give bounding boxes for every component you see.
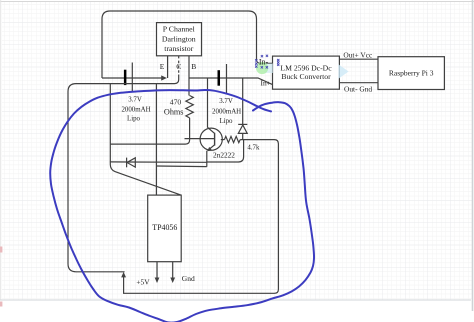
wire loop1: In- net from battery+ rail up and over to buck converter In- xyxy=(102,11,273,78)
svg-text:Lipo: Lipo xyxy=(127,116,141,123)
battery B1 thick plate xyxy=(124,70,127,85)
transistor Q1 emitter arrow xyxy=(207,147,212,151)
page left border xyxy=(0,0,2,300)
svg-text:3.7V: 3.7V xyxy=(219,98,233,105)
raspberry pi U3 box xyxy=(378,57,444,90)
svg-text:2000mAH: 2000mAH xyxy=(212,109,241,116)
wire battery2 rail B to In+ xyxy=(189,78,273,85)
wire Out- Gnd xyxy=(339,82,378,84)
svg-text:3.7V: 3.7V xyxy=(128,97,142,104)
svg-text:+5V: +5V xyxy=(136,278,150,287)
wire freehand blue enclosure loop xyxy=(50,90,314,322)
wire loop2: C net down left side to +5V arrow xyxy=(68,84,175,272)
battery B1 long thin plate xyxy=(131,63,133,93)
wire battery1 rail to E with arrow xyxy=(102,77,161,79)
page right border xyxy=(472,0,474,311)
wire diode net horizontal xyxy=(110,161,207,163)
buck converter U2 box xyxy=(273,56,340,89)
svg-text:Ohms: Ohms xyxy=(164,108,184,117)
arrowhead down left xyxy=(155,278,160,284)
selection x handles around In- xyxy=(255,55,279,69)
arrowhead down Gnd xyxy=(170,278,175,284)
diode D2 bar xyxy=(238,123,247,125)
svg-text:Gnd: Gnd xyxy=(182,274,195,283)
pin C hook to loop2 xyxy=(175,75,179,84)
transistor Q1 base bar xyxy=(214,133,216,146)
component U1 P Channel Darlington transistor box xyxy=(157,23,202,56)
svg-text:470: 470 xyxy=(170,98,182,107)
wire R2 to bottom rail and +5V arrow xyxy=(124,140,279,294)
TP4056 U4 box xyxy=(148,195,182,262)
left margin pink smudge 2 xyxy=(0,302,2,307)
svg-text:4.7k: 4.7k xyxy=(247,144,260,151)
svg-text:E: E xyxy=(160,62,165,71)
svg-text:2000mAH: 2000mAH xyxy=(121,106,150,113)
svg-text:In+: In+ xyxy=(261,79,271,88)
resistor R2 zigzag xyxy=(224,136,240,142)
svg-text:Lipo: Lipo xyxy=(219,118,233,125)
svg-text:Darlington: Darlington xyxy=(162,35,196,44)
TP4056 left output lead xyxy=(156,262,158,280)
page top border xyxy=(0,1,474,3)
transistor Q1 emitter diagonal xyxy=(208,145,215,151)
svg-text:Out+ Vcc: Out+ Vcc xyxy=(343,51,373,60)
diode D2 triangle xyxy=(238,125,247,133)
arrowhead +5V up xyxy=(121,272,126,278)
battery B2 thick plate xyxy=(218,70,221,86)
pin C lead (dashed) xyxy=(178,56,180,75)
transistor Q1 collector lead up xyxy=(207,78,209,128)
page grid bottom edge xyxy=(0,299,471,301)
svg-text:TP4056: TP4056 xyxy=(152,223,177,232)
resistor R1 bottom lead cornering left xyxy=(110,118,189,144)
resistor R2 4.7k lead xyxy=(221,139,225,141)
battery B2 long thin plate xyxy=(226,64,228,93)
diode D2 lead to junction xyxy=(242,133,244,139)
wire Out+ Vcc xyxy=(339,58,378,60)
diode D1 triangle xyxy=(127,158,135,167)
svg-text:Out- Gnd: Out- Gnd xyxy=(344,85,372,94)
svg-text:In-: In- xyxy=(259,58,269,67)
svg-text:P Channel: P Channel xyxy=(163,25,196,34)
wire base stub xyxy=(185,138,215,140)
TP4056 Gnd output lead xyxy=(172,262,174,280)
selection green glow circle xyxy=(256,62,268,74)
selection cyan triangle cursor xyxy=(338,64,348,78)
svg-text:C: C xyxy=(176,62,181,71)
diode D1 bar xyxy=(126,158,128,168)
transistor Q1 emitter lead down xyxy=(206,151,208,167)
svg-text:transistor: transistor xyxy=(164,44,193,53)
resistor R1 470 Ohms lead xyxy=(188,78,190,96)
pin B lead xyxy=(188,56,190,78)
diode D2 lead from battery2 rail xyxy=(242,78,244,125)
resistor R1 zigzag xyxy=(186,96,193,118)
wire emitter to 4.7k corner xyxy=(207,140,244,162)
wire TP4056 node to emitter horizontal xyxy=(156,165,206,168)
svg-text:B: B xyxy=(191,62,196,71)
left margin pink smudge 1 xyxy=(0,247,2,253)
wire C node vertical to TP4056 xyxy=(155,84,157,195)
svg-text:Raspberry Pi 3: Raspberry Pi 3 xyxy=(389,68,434,77)
wire left branch vertical with bend into TP4056 diagonal xyxy=(110,84,181,195)
transistor Q1 collector diagonal xyxy=(208,127,215,133)
svg-text:Buck Convertor: Buck Convertor xyxy=(281,72,331,81)
transistor Q1 2n2222 circle xyxy=(200,128,222,150)
pin E lead xyxy=(167,56,169,78)
arrowhead into E xyxy=(161,75,167,80)
selection cyan patch xyxy=(265,64,274,74)
svg-text:2n2222: 2n2222 xyxy=(213,151,235,160)
